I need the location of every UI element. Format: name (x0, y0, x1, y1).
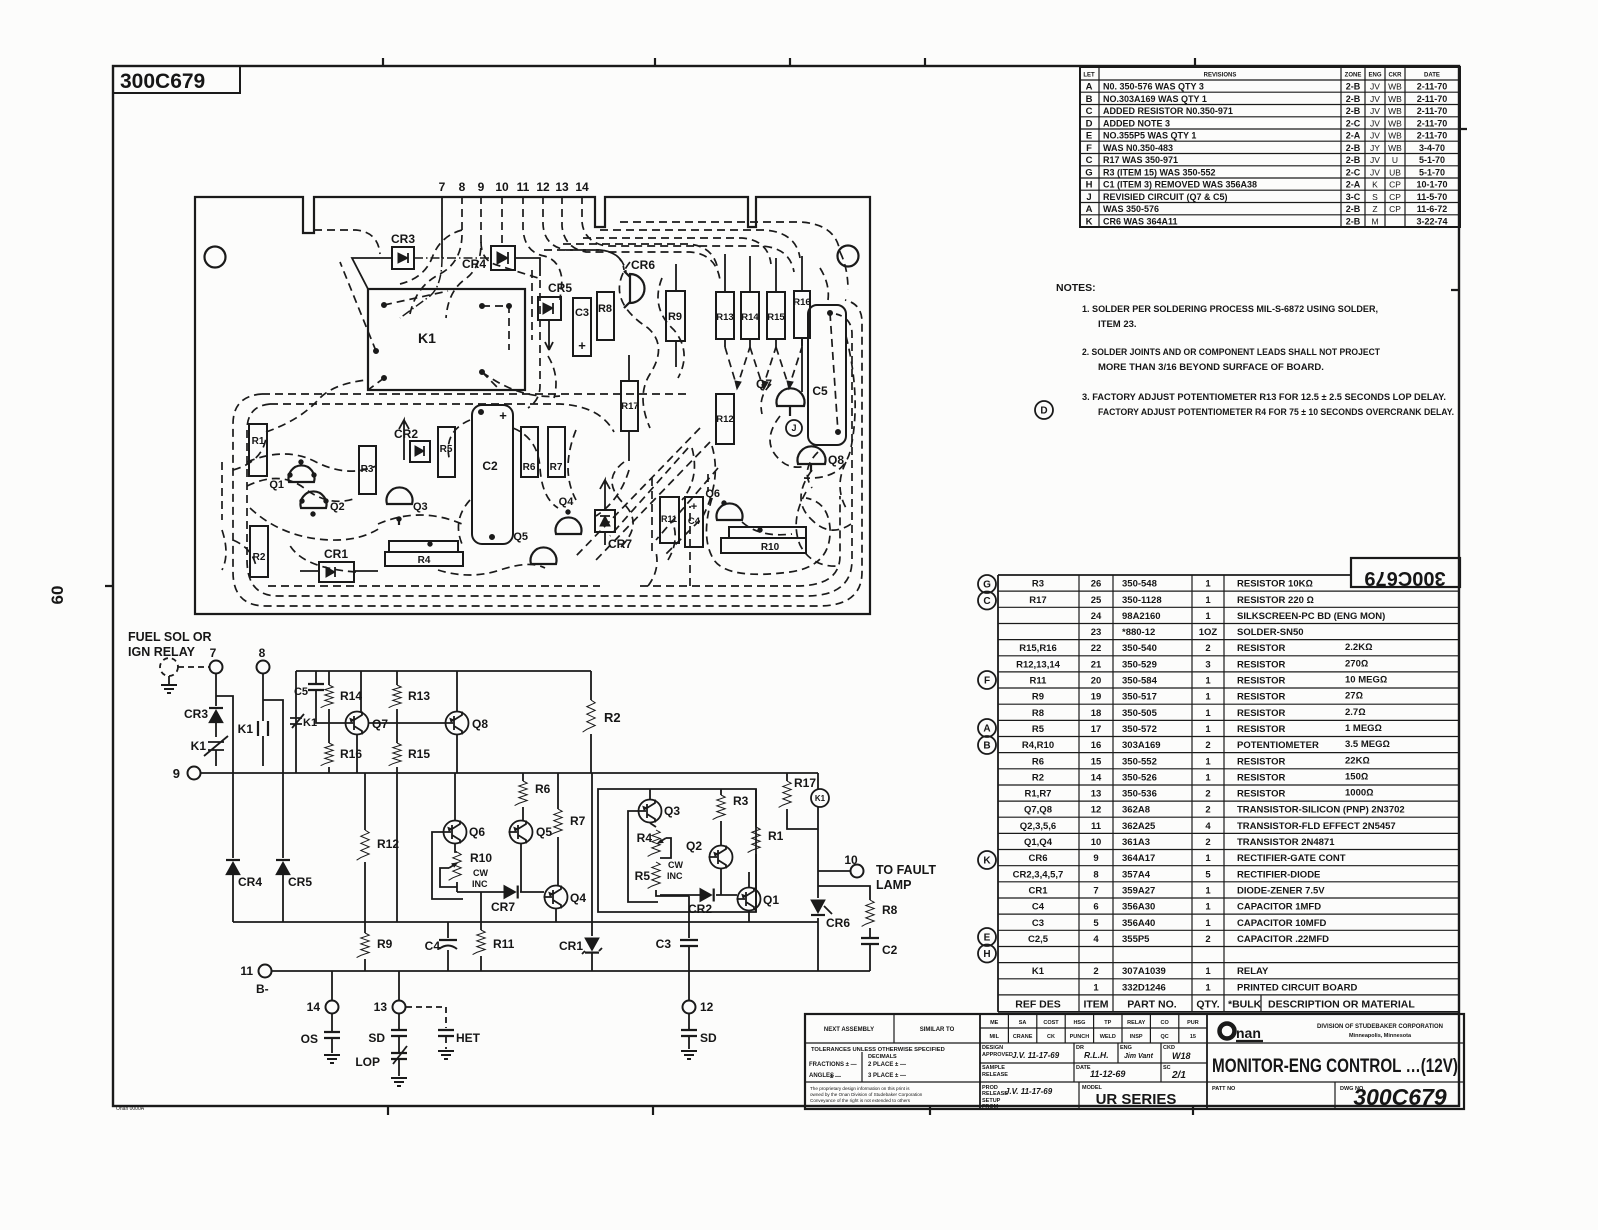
balloon C (978, 592, 996, 610)
svg-text:CR6 WAS 364A11: CR6 WAS 364A11 (1103, 216, 1178, 226)
transistor Q3 (638, 789, 681, 823)
svg-text:DIODE-ZENER 7.5V: DIODE-ZENER 7.5V (1237, 885, 1325, 896)
svg-text:TO FAULT: TO FAULT (876, 863, 936, 877)
PCB trace mid S (596, 446, 715, 556)
svg-text:Q2: Q2 (330, 501, 345, 513)
svg-text:6: 6 (1093, 902, 1098, 913)
svg-text:*880-12: *880-12 (1122, 627, 1155, 638)
svg-text:3 PLACE ± —: 3 PLACE ± — (868, 1073, 906, 1079)
svg-text:DATE: DATE (1076, 1065, 1091, 1071)
svg-text:350-1128: 350-1128 (1122, 595, 1162, 606)
svg-text:H: H (1086, 180, 1093, 191)
svg-text:R8: R8 (598, 303, 612, 315)
svg-text:22: 22 (1091, 643, 1102, 654)
PCB rectifier CR6 (624, 258, 655, 308)
svg-text:332D1246: 332D1246 (1122, 982, 1166, 993)
svg-text:JV: JV (1370, 155, 1380, 165)
svg-text:1: 1 (1205, 724, 1211, 735)
svg-text:RELEASE: RELEASE (982, 1072, 1008, 1078)
svg-text:NO.303A169 WAS QTY 1: NO.303A169 WAS QTY 1 (1103, 94, 1207, 104)
PCB transistor Q1 (269, 460, 316, 491)
svg-text:8: 8 (459, 180, 466, 194)
svg-text:1: 1 (1205, 966, 1211, 977)
PCB resistor R2 (250, 526, 268, 577)
PCB trace R10 Q6 loop (706, 498, 830, 574)
svg-text:APPROVED: APPROVED (982, 1052, 1013, 1058)
svg-text:Z: Z (1372, 204, 1377, 214)
wire top rail (296, 671, 591, 773)
PCB pin 9 lead wire (446, 196, 481, 318)
PCB transistor Q3 (387, 487, 428, 525)
svg-text:R5: R5 (635, 869, 651, 883)
svg-text:DR: DR (1076, 1045, 1084, 1051)
diode CR7 (491, 886, 518, 915)
notes text (1056, 282, 1454, 418)
svg-text:INC: INC (472, 879, 488, 889)
svg-text:RESISTOR: RESISTOR (1237, 659, 1286, 670)
svg-text:60: 60 (48, 586, 67, 605)
svg-text:R9: R9 (668, 311, 682, 323)
svg-text:2: 2 (1205, 789, 1210, 800)
svg-text:TRANSISTOR 2N4871: TRANSISTOR 2N4871 (1237, 837, 1335, 848)
PCB resistor R11 (660, 497, 679, 543)
svg-text:R10: R10 (470, 851, 492, 865)
svg-text:4: 4 (1093, 934, 1099, 945)
svg-text:A: A (1086, 82, 1093, 93)
svg-text:D: D (1086, 118, 1093, 129)
PCB transistor Q8 (798, 446, 845, 472)
svg-text:Q3: Q3 (413, 501, 428, 513)
svg-text:K: K (983, 856, 991, 867)
PCB relay K1 outline (368, 289, 525, 390)
svg-text:LOP: LOP (355, 1055, 380, 1069)
svg-text:14: 14 (307, 1000, 321, 1014)
diode CR5 (276, 860, 312, 922)
svg-text:9: 9 (173, 766, 180, 781)
svg-text:RESISTOR: RESISTOR (1237, 789, 1286, 800)
svg-text:150Ω: 150Ω (1345, 771, 1368, 782)
PCB trace top right extra (820, 252, 848, 300)
svg-text:owned by the Onan Division of: owned by the Onan Division of Studebaker… (810, 1092, 923, 1097)
wire R2 column lower (591, 773, 593, 922)
svg-text:M: M (1371, 216, 1378, 226)
svg-text:C: C (983, 596, 990, 607)
svg-text:MONITOR-ENG CONTROL …(12V): MONITOR-ENG CONTROL …(12V) (1212, 1055, 1458, 1077)
svg-text:R9: R9 (377, 937, 393, 951)
PCB resistor R8 (597, 292, 614, 340)
svg-text:CR5: CR5 (288, 875, 312, 889)
svg-text:TP: TP (1104, 1020, 1111, 1026)
svg-text:2.2KΩ: 2.2KΩ (1345, 642, 1372, 653)
svg-text:RESISTOR: RESISTOR (1237, 724, 1286, 735)
wire bus 9 (201, 772, 818, 774)
zener diode CR1 (559, 922, 602, 971)
svg-text:12: 12 (536, 180, 550, 194)
PCB diode CR1 (319, 547, 354, 582)
svg-text:C2,5: C2,5 (1028, 934, 1049, 945)
svg-text:2-11-70: 2-11-70 (1417, 106, 1448, 116)
svg-text:CAPACITOR 10MFD: CAPACITOR 10MFD (1237, 918, 1327, 929)
svg-text:3-C: 3-C (1346, 192, 1361, 202)
svg-text:Q5: Q5 (513, 531, 528, 543)
PCB diode CR5 (538, 281, 572, 350)
svg-text:CR2: CR2 (394, 427, 418, 441)
PCB resistor R6 (521, 427, 538, 477)
PCB pin 10 lead wire (501, 196, 503, 248)
svg-text:JV: JV (1370, 131, 1380, 141)
svg-text:CO: CO (1160, 1020, 1169, 1026)
svg-text:21: 21 (1091, 659, 1102, 670)
svg-text:C4: C4 (1032, 902, 1045, 913)
svg-text:K1: K1 (303, 717, 317, 729)
svg-text:CR3: CR3 (391, 232, 415, 246)
svg-text:CR4: CR4 (238, 875, 262, 889)
svg-text:2-B: 2-B (1346, 155, 1361, 165)
svg-text:Q8: Q8 (828, 453, 844, 467)
PCB board outline (195, 197, 870, 614)
PCB resistor R14 (741, 292, 759, 339)
svg-text:2-11-70: 2-11-70 (1417, 118, 1448, 128)
PCB pin 8 lead wire (410, 196, 462, 314)
svg-text:Q1: Q1 (763, 893, 779, 907)
svg-text:J.V. 11-17-69: J.V. 11-17-69 (1012, 1051, 1060, 1060)
balloon H (978, 945, 996, 963)
PCB resistor R13 (716, 292, 734, 339)
svg-text:R17: R17 (621, 401, 638, 412)
PCB resistor R1 (249, 424, 267, 476)
svg-text:15: 15 (1190, 1034, 1196, 1040)
sheet number 60 (rotated) (48, 586, 67, 605)
svg-text:R11: R11 (493, 937, 515, 951)
svg-text:364A17: 364A17 (1122, 853, 1155, 864)
svg-text:LAMP: LAMP (876, 878, 911, 892)
svg-text:B: B (983, 741, 990, 752)
svg-text:FROM: FROM (982, 1104, 999, 1110)
PCB capacitor C4 (685, 497, 703, 547)
PCB trace outer ground loop (233, 300, 862, 606)
PCB trace top bundle left (314, 230, 462, 284)
svg-text:R4,R10: R4,R10 (1022, 740, 1054, 751)
PCB trace pins to right bundle (481, 222, 840, 278)
svg-text:TRANSISTOR-FLD EFFECT 2N5457: TRANSISTOR-FLD EFFECT 2N5457 (1237, 821, 1396, 832)
svg-text:C3: C3 (575, 307, 589, 319)
PCB transistor Q6 (705, 488, 742, 520)
svg-text:+: + (691, 501, 697, 513)
svg-text:DESCRIPTION OR MATERIAL: DESCRIPTION OR MATERIAL (1268, 998, 1415, 1010)
svg-text:IGN RELAY: IGN RELAY (128, 645, 196, 659)
svg-text:350-526: 350-526 (1122, 772, 1157, 783)
tiny print bottom-left (116, 1106, 145, 1112)
PCB resistor R9 (666, 291, 685, 341)
svg-text:2: 2 (1205, 805, 1210, 816)
svg-text:COST: COST (1043, 1020, 1059, 1026)
svg-text:RESISTOR 220 Ω: RESISTOR 220 Ω (1237, 595, 1314, 606)
svg-text:H: H (983, 949, 990, 960)
wire Q3 gate bracket (628, 811, 658, 902)
transistor Q8 (445, 671, 489, 773)
PCB trace third bottom run (268, 404, 840, 586)
wire fault lamp column (817, 807, 819, 971)
svg-text:Jim Vant: Jim Vant (1124, 1053, 1154, 1060)
svg-text:RESISTOR 10KΩ: RESISTOR 10KΩ (1237, 579, 1313, 590)
title block (805, 1014, 1464, 1110)
svg-text:2-A: 2-A (1346, 180, 1361, 190)
svg-text:356A30: 356A30 (1122, 902, 1155, 913)
svg-text:*BULK: *BULK (1228, 998, 1262, 1010)
svg-text:ITEM: ITEM (1083, 998, 1108, 1010)
svg-text:SD: SD (700, 1031, 717, 1045)
svg-text:K1: K1 (815, 794, 826, 803)
resistor R12 (357, 773, 400, 922)
balloon B (978, 736, 996, 754)
svg-text:MORE THAN 3/16 BEYOND SURFACE: MORE THAN 3/16 BEYOND SURFACE OF BOARD. (1098, 362, 1324, 373)
balloon K1 (811, 773, 829, 807)
PCB resistor R15 (767, 292, 785, 339)
svg-text:RELAY: RELAY (1127, 1020, 1145, 1026)
node 9 terminal (173, 766, 201, 781)
svg-text:JV: JV (1370, 82, 1380, 92)
PCB trace Q1 Q2 blob (247, 454, 380, 540)
svg-text:350-505: 350-505 (1122, 708, 1158, 719)
svg-text:A: A (983, 724, 990, 735)
PCB pin 12 lead wire (543, 196, 624, 270)
inner block rectangle (598, 789, 756, 912)
svg-text:R3 (ITEM 15) WAS 350-552: R3 (ITEM 15) WAS 350-552 (1103, 167, 1216, 177)
svg-text:2-11-70: 2-11-70 (1417, 94, 1448, 104)
svg-text:Q3: Q3 (664, 804, 680, 818)
relay contact K1 (schematic var) (290, 714, 346, 729)
ground below relay (161, 676, 177, 693)
PCB trace second loop (247, 314, 852, 596)
zone balloon D at note 3 (1035, 401, 1053, 419)
svg-text:350-572: 350-572 (1122, 724, 1157, 735)
svg-text:JV: JV (1370, 94, 1380, 104)
svg-text:K: K (1372, 180, 1378, 190)
svg-text:355P5: 355P5 (1122, 934, 1150, 945)
svg-text:Q1: Q1 (269, 479, 284, 491)
svg-text:361A3: 361A3 (1122, 837, 1150, 848)
PCB edge connector pin numbers 7-14 (439, 180, 589, 194)
svg-text:20: 20 (1091, 676, 1102, 687)
svg-text:350-517: 350-517 (1122, 692, 1157, 703)
svg-text:SIMILAR TO: SIMILAR TO (920, 1027, 955, 1033)
resistor R6 (515, 773, 551, 820)
PCB zone balloon J (786, 420, 802, 436)
resistor R3 (713, 789, 749, 845)
svg-text:2-C: 2-C (1346, 167, 1361, 177)
svg-text:DATE: DATE (1424, 73, 1440, 79)
PCB pin 7 lead wire (400, 196, 442, 318)
svg-text:9: 9 (1093, 853, 1098, 864)
svg-text:C3: C3 (656, 937, 672, 951)
svg-text:12: 12 (700, 1000, 714, 1014)
svg-text:7: 7 (1093, 885, 1098, 896)
svg-text:SILKSCREEN-PC BD (ENG MON): SILKSCREEN-PC BD (ENG MON) (1237, 611, 1385, 622)
svg-text:R17: R17 (1029, 595, 1046, 606)
resistor R5 (635, 860, 689, 896)
svg-text:CR6: CR6 (826, 916, 850, 930)
svg-text:Q5: Q5 (536, 825, 552, 839)
svg-text:1: 1 (1205, 772, 1211, 783)
svg-text:98A2160: 98A2160 (1122, 611, 1161, 622)
svg-text:RESISTOR: RESISTOR (1237, 756, 1286, 767)
svg-text:WAS N0.350-483: WAS N0.350-483 (1103, 143, 1173, 153)
resistor R13 (389, 671, 431, 723)
svg-text:PATT NO: PATT NO (1212, 1086, 1236, 1092)
svg-text:J: J (1086, 192, 1091, 203)
svg-text:PART NO.: PART NO. (1127, 998, 1176, 1010)
svg-text:J.V. 11-17-69: J.V. 11-17-69 (1005, 1087, 1053, 1096)
PCB transistor Q4 (556, 496, 582, 534)
diode CR4 (226, 860, 262, 922)
svg-text:14: 14 (575, 180, 589, 194)
svg-text:FRACTIONS ± —: FRACTIONS ± — (809, 1062, 857, 1068)
svg-text:R7: R7 (570, 814, 586, 828)
PCB resistor R5 (438, 427, 455, 477)
schematic label fuel sol or ign relay (128, 630, 212, 659)
PCB resistor R3 (359, 446, 376, 494)
svg-text:ME: ME (990, 1020, 999, 1026)
svg-text:7: 7 (210, 646, 217, 660)
svg-text:19: 19 (1091, 692, 1102, 703)
svg-text:JV: JV (1370, 167, 1380, 177)
drawing number box top-left (113, 66, 240, 93)
svg-text:CAPACITOR 1MFD: CAPACITOR 1MFD (1237, 902, 1321, 913)
wire bus B- (272, 970, 870, 972)
svg-text:PRINTED CIRCUIT BOARD: PRINTED CIRCUIT BOARD (1237, 982, 1357, 993)
svg-text:INSP: INSP (1130, 1034, 1143, 1040)
svg-text:CR1: CR1 (1028, 885, 1048, 896)
svg-text:1: 1 (1205, 595, 1211, 606)
resistor R16 (321, 723, 363, 773)
svg-text:11: 11 (240, 964, 253, 978)
svg-text:C2: C2 (482, 459, 498, 473)
svg-text:S: S (1372, 192, 1378, 202)
svg-text:2. SOLDER JOINTS AND OR COMPO: 2. SOLDER JOINTS AND OR COMPONENT LEADS … (1082, 347, 1380, 358)
svg-text:ITEM 23.: ITEM 23. (1098, 319, 1137, 330)
PCB trace K1 right side (528, 270, 556, 408)
balloon E (978, 928, 996, 946)
svg-text:RESISTOR: RESISTOR (1237, 772, 1286, 783)
PCB wire R16 to Q7 (801, 338, 803, 392)
svg-text:350-536: 350-536 (1122, 789, 1157, 800)
svg-text:14: 14 (1091, 772, 1102, 783)
transistor Q5 (509, 821, 553, 893)
wire Q6 drain up (454, 773, 456, 820)
svg-text:CR2,3,4,5,7: CR2,3,4,5,7 (1013, 869, 1064, 880)
svg-text:7: 7 (439, 180, 446, 194)
PCB trace left upper diagonals (233, 380, 366, 470)
svg-text:R5: R5 (1032, 724, 1045, 735)
svg-text:R16: R16 (340, 747, 362, 761)
capacitor C3 (656, 896, 698, 971)
svg-text:C: C (1086, 155, 1093, 166)
PCB transistor Q2 (300, 491, 345, 516)
svg-text:Q2: Q2 (686, 839, 702, 853)
svg-text:WB: WB (1388, 106, 1402, 116)
svg-text:3: 3 (1205, 659, 1210, 670)
svg-text:B-: B- (256, 982, 269, 996)
svg-text:Q4: Q4 (559, 496, 575, 508)
svg-text:2: 2 (1093, 966, 1098, 977)
svg-text:NEXT ASSEMBLY: NEXT ASSEMBLY (824, 1027, 874, 1033)
PCB mounting hole left (205, 247, 226, 268)
transistor Q2 (686, 839, 733, 895)
svg-text:C1 (ITEM 3) REMOVED WAS 356A38: C1 (ITEM 3) REMOVED WAS 356A38 (1103, 180, 1257, 190)
svg-text:Q7: Q7 (372, 717, 388, 731)
svg-text:362A25: 362A25 (1122, 821, 1156, 832)
PCB trace inside K1 (340, 262, 448, 390)
svg-text:2/1: 2/1 (1171, 1070, 1186, 1081)
svg-text:2: 2 (1205, 643, 1210, 654)
svg-text:Q8: Q8 (472, 717, 488, 731)
svg-text:CR6: CR6 (631, 258, 655, 272)
svg-text:CR1: CR1 (559, 939, 583, 953)
svg-text:ZONE: ZONE (1345, 73, 1362, 79)
PCB trace around R4 (288, 515, 545, 575)
resistor R8 (818, 886, 898, 938)
svg-text:11-6-72: 11-6-72 (1417, 204, 1448, 214)
svg-text:SA: SA (1019, 1020, 1027, 1026)
PCB mounting hole right (838, 246, 859, 267)
svg-text:W18: W18 (1172, 1051, 1191, 1061)
svg-text:CP: CP (1389, 204, 1401, 214)
svg-text:R6: R6 (535, 782, 551, 796)
svg-text:1: 1 (1205, 692, 1211, 703)
svg-text:15: 15 (1091, 756, 1102, 767)
PCB wire CR1 leads (300, 570, 378, 572)
svg-text:CR3: CR3 (184, 707, 208, 721)
svg-text:G: G (1085, 167, 1092, 178)
svg-text:5: 5 (1093, 918, 1099, 929)
svg-text:5: 5 (1205, 869, 1211, 880)
PCB trace R13-R16 W pattern (725, 338, 802, 389)
svg-text:Q2,3,5,6: Q2,3,5,6 (1020, 821, 1056, 832)
svg-text:1000Ω: 1000Ω (1345, 788, 1373, 799)
svg-text:UB: UB (1389, 167, 1401, 177)
PCB diode CR7 (595, 480, 632, 551)
resistor R11 (473, 892, 515, 971)
svg-text:300C679: 300C679 (1364, 567, 1445, 589)
svg-text:Onan 0000A: Onan 0000A (116, 1106, 145, 1112)
svg-text:R16: R16 (793, 297, 810, 308)
svg-text:QTY.: QTY. (1196, 998, 1219, 1010)
terminal 11 (240, 964, 271, 996)
wire Q6 gate bracket (432, 832, 463, 899)
svg-text:C2: C2 (882, 943, 898, 957)
svg-text:FACTORY ADJUST POTENTIOMETER R: FACTORY ADJUST POTENTIOMETER R4 FOR 75 ±… (1098, 407, 1454, 418)
balloon A (978, 719, 996, 737)
svg-text:NO.355P5 WAS QTY 1: NO.355P5 WAS QTY 1 (1103, 131, 1196, 141)
svg-text:B: B (1086, 94, 1093, 105)
svg-text:K1: K1 (238, 722, 254, 736)
svg-text:POTENTIOMETER: POTENTIOMETER (1237, 740, 1319, 751)
svg-text:CR5: CR5 (548, 281, 572, 295)
svg-text:Q1,Q4: Q1,Q4 (1024, 837, 1053, 848)
svg-text:13: 13 (1091, 789, 1102, 800)
svg-text:1: 1 (1205, 902, 1211, 913)
svg-text:CR2: CR2 (688, 902, 712, 916)
svg-text:K1: K1 (1032, 966, 1045, 977)
svg-text:CR4: CR4 (462, 257, 486, 271)
svg-text:10-1-70: 10-1-70 (1416, 180, 1447, 190)
svg-text:Q6: Q6 (469, 825, 485, 839)
PCB capacitor C2 (472, 405, 513, 544)
svg-text:RESISTOR: RESISTOR (1237, 708, 1286, 719)
relay coil K1 symbol (238, 721, 268, 766)
potentiometer R4 (637, 823, 671, 858)
svg-text:nan: nan (1236, 1025, 1261, 1041)
